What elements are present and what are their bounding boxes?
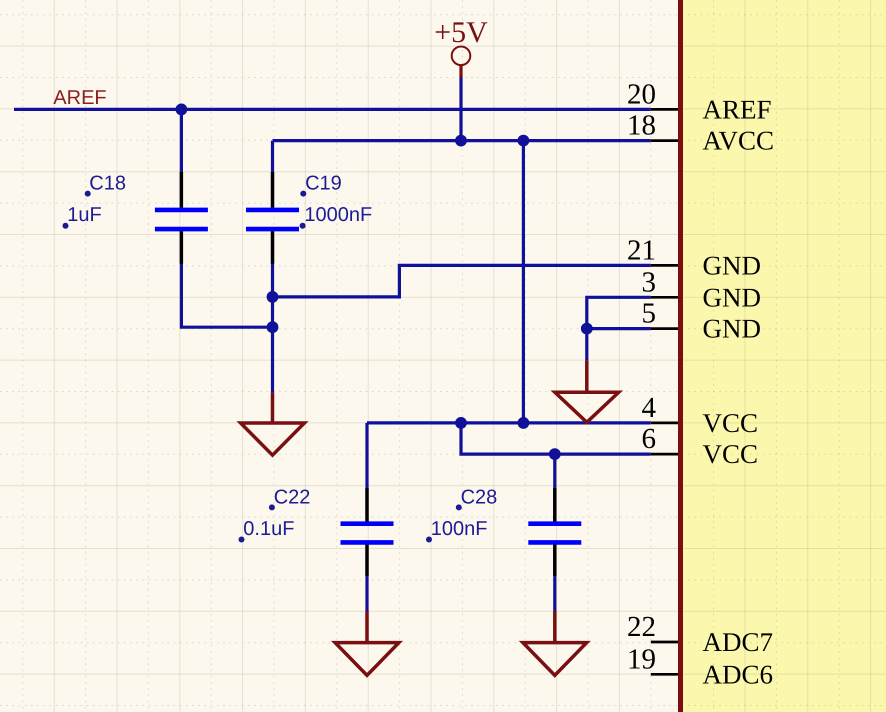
label C28 (456, 487, 498, 511)
pin 4 (651, 422, 678, 425)
node AVCC/+5V (455, 135, 467, 147)
node C19/C18 bottom (267, 321, 279, 333)
pin 6 (651, 453, 678, 456)
wire GND pin3 (587, 297, 651, 360)
wire C28 top vertical (553, 454, 556, 521)
capacitor C28 (528, 488, 581, 576)
svg-text:21: 21 (627, 234, 656, 266)
label 1uF (63, 204, 102, 229)
ground below pins 3/5 (555, 361, 619, 423)
svg-text:100nF: 100nF (431, 518, 488, 540)
svg-text:VCC: VCC (703, 439, 759, 469)
component body (IC) left border (678, 0, 683, 712)
svg-text:ADC7: ADC7 (703, 627, 774, 657)
label 0.1uF (239, 518, 295, 543)
node pin6/C28 (549, 448, 561, 460)
node pin5/gnd (581, 323, 593, 335)
capacitor C22 (341, 488, 394, 576)
svg-text:AVCC: AVCC (703, 126, 775, 156)
svg-text:4: 4 (642, 392, 657, 424)
wire GND pin5 (587, 327, 651, 330)
wire GND pin21 jog (273, 265, 651, 297)
svg-text:0.1uF: 0.1uF (243, 518, 294, 540)
svg-text:GND: GND (703, 314, 762, 344)
pin 19 (651, 673, 678, 676)
svg-text:22: 22 (627, 611, 656, 643)
node AVCC/long vertical (518, 135, 530, 147)
ground below C28 (523, 611, 587, 675)
pin 5 (651, 327, 678, 330)
wire C22 top vertical (365, 423, 368, 522)
svg-text:3: 3 (642, 266, 657, 298)
svg-text:1000nF: 1000nF (304, 204, 372, 226)
label C18 (85, 173, 126, 197)
svg-text:C18: C18 (89, 173, 126, 195)
label C22 (269, 487, 311, 511)
wire C22 bottom vertical (365, 545, 368, 611)
node VCC/pin6 riser (455, 417, 467, 429)
svg-text:C19: C19 (305, 173, 342, 195)
pin 18 (651, 139, 678, 142)
ground below C19 (241, 393, 305, 456)
node VCC/long vertical (518, 417, 530, 429)
svg-text:+5V: +5V (434, 16, 488, 49)
svg-text:VCC: VCC (703, 408, 759, 438)
capacitor C19 (246, 172, 299, 264)
svg-text:GND: GND (703, 250, 762, 280)
pin 21 (651, 264, 678, 267)
power port +5V (452, 47, 471, 78)
svg-text:AREF: AREF (703, 94, 772, 124)
wire VCC pin4 (367, 421, 651, 424)
svg-text:GND: GND (703, 282, 762, 312)
svg-text:C22: C22 (274, 487, 311, 509)
svg-text:C28: C28 (461, 487, 498, 509)
wire VCC pin6 with riser (461, 423, 651, 454)
svg-text:1uF: 1uF (67, 204, 101, 226)
svg-text:20: 20 (627, 78, 656, 110)
node C19/pin21 jog (267, 291, 279, 303)
label 100nF (426, 518, 488, 543)
pin 20 (651, 108, 678, 111)
wire AREF horizontal (net AREF) (14, 108, 651, 111)
wire C18 bottom to C19 junction (181, 231, 272, 327)
pin 22 (651, 641, 678, 644)
wire AVCC horizontal (273, 139, 651, 142)
pin 3 (651, 296, 678, 299)
svg-text:ADC6: ADC6 (703, 659, 774, 689)
wire C28 bottom vertical (553, 545, 556, 611)
svg-text:19: 19 (627, 643, 656, 675)
node AREF/C18 (176, 104, 188, 116)
svg-text:18: 18 (627, 110, 656, 142)
wire C18 top vertical (180, 109, 183, 207)
label C19 (300, 173, 342, 197)
wire long vertical AVCC to VCC (522, 141, 525, 423)
ground below C22 (335, 611, 399, 675)
junction dots (176, 104, 593, 461)
label 1000nF (300, 204, 373, 229)
capacitor C18 (155, 172, 208, 264)
wire C19 bottom vertical to ground (271, 231, 274, 392)
svg-text:5: 5 (642, 298, 657, 330)
svg-text:6: 6 (642, 423, 657, 455)
wire C19 top vertical from AVCC (271, 141, 274, 208)
svg-text:AREF: AREF (53, 87, 106, 109)
wire +5V vertical drop (459, 77, 462, 141)
